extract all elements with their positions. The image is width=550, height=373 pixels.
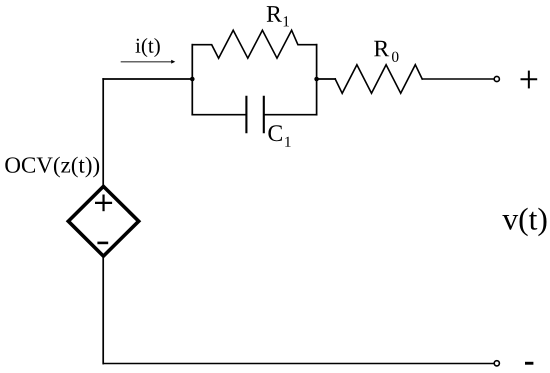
capacitor C1 right lead (265, 114, 317, 116)
label v(t) (502, 208, 546, 237)
negative terminal minus sign (525, 362, 533, 365)
wire RC block left edge (191, 45, 193, 115)
capacitor C1 left lead (192, 114, 245, 116)
source plus sign (95, 195, 112, 212)
negative terminal circle (494, 361, 499, 366)
capacitor C1 right plate (263, 97, 265, 132)
source minus sign (97, 242, 108, 245)
resistor R1 (192, 30, 316, 58)
label C1 (268, 125, 290, 146)
label OCV(z(t)) (5, 157, 99, 178)
dependent source OCV diamond (68, 186, 138, 256)
wire R0 to positive terminal (422, 78, 494, 80)
node A junction dot (190, 77, 195, 82)
current arrow i(t) (121, 60, 176, 64)
positive terminal plus sign (521, 71, 538, 89)
positive terminal circle (494, 76, 499, 81)
wire left vertical from node A down to source top (102, 79, 104, 187)
wire bottom horizontal to negative terminal (103, 363, 494, 365)
label i(t) (136, 38, 160, 57)
label R0 (374, 41, 398, 62)
wire RC block right edge (316, 45, 318, 115)
wire node B to resistor R0 (317, 78, 336, 80)
node B junction dot (314, 77, 319, 82)
resistor R0 (335, 65, 422, 94)
capacitor C1 left plate (245, 97, 247, 132)
label R1 (267, 6, 289, 26)
wire top-left horizontal from node A to RC block (103, 78, 192, 80)
wire source bottom to bottom-left corner (102, 256, 104, 364)
